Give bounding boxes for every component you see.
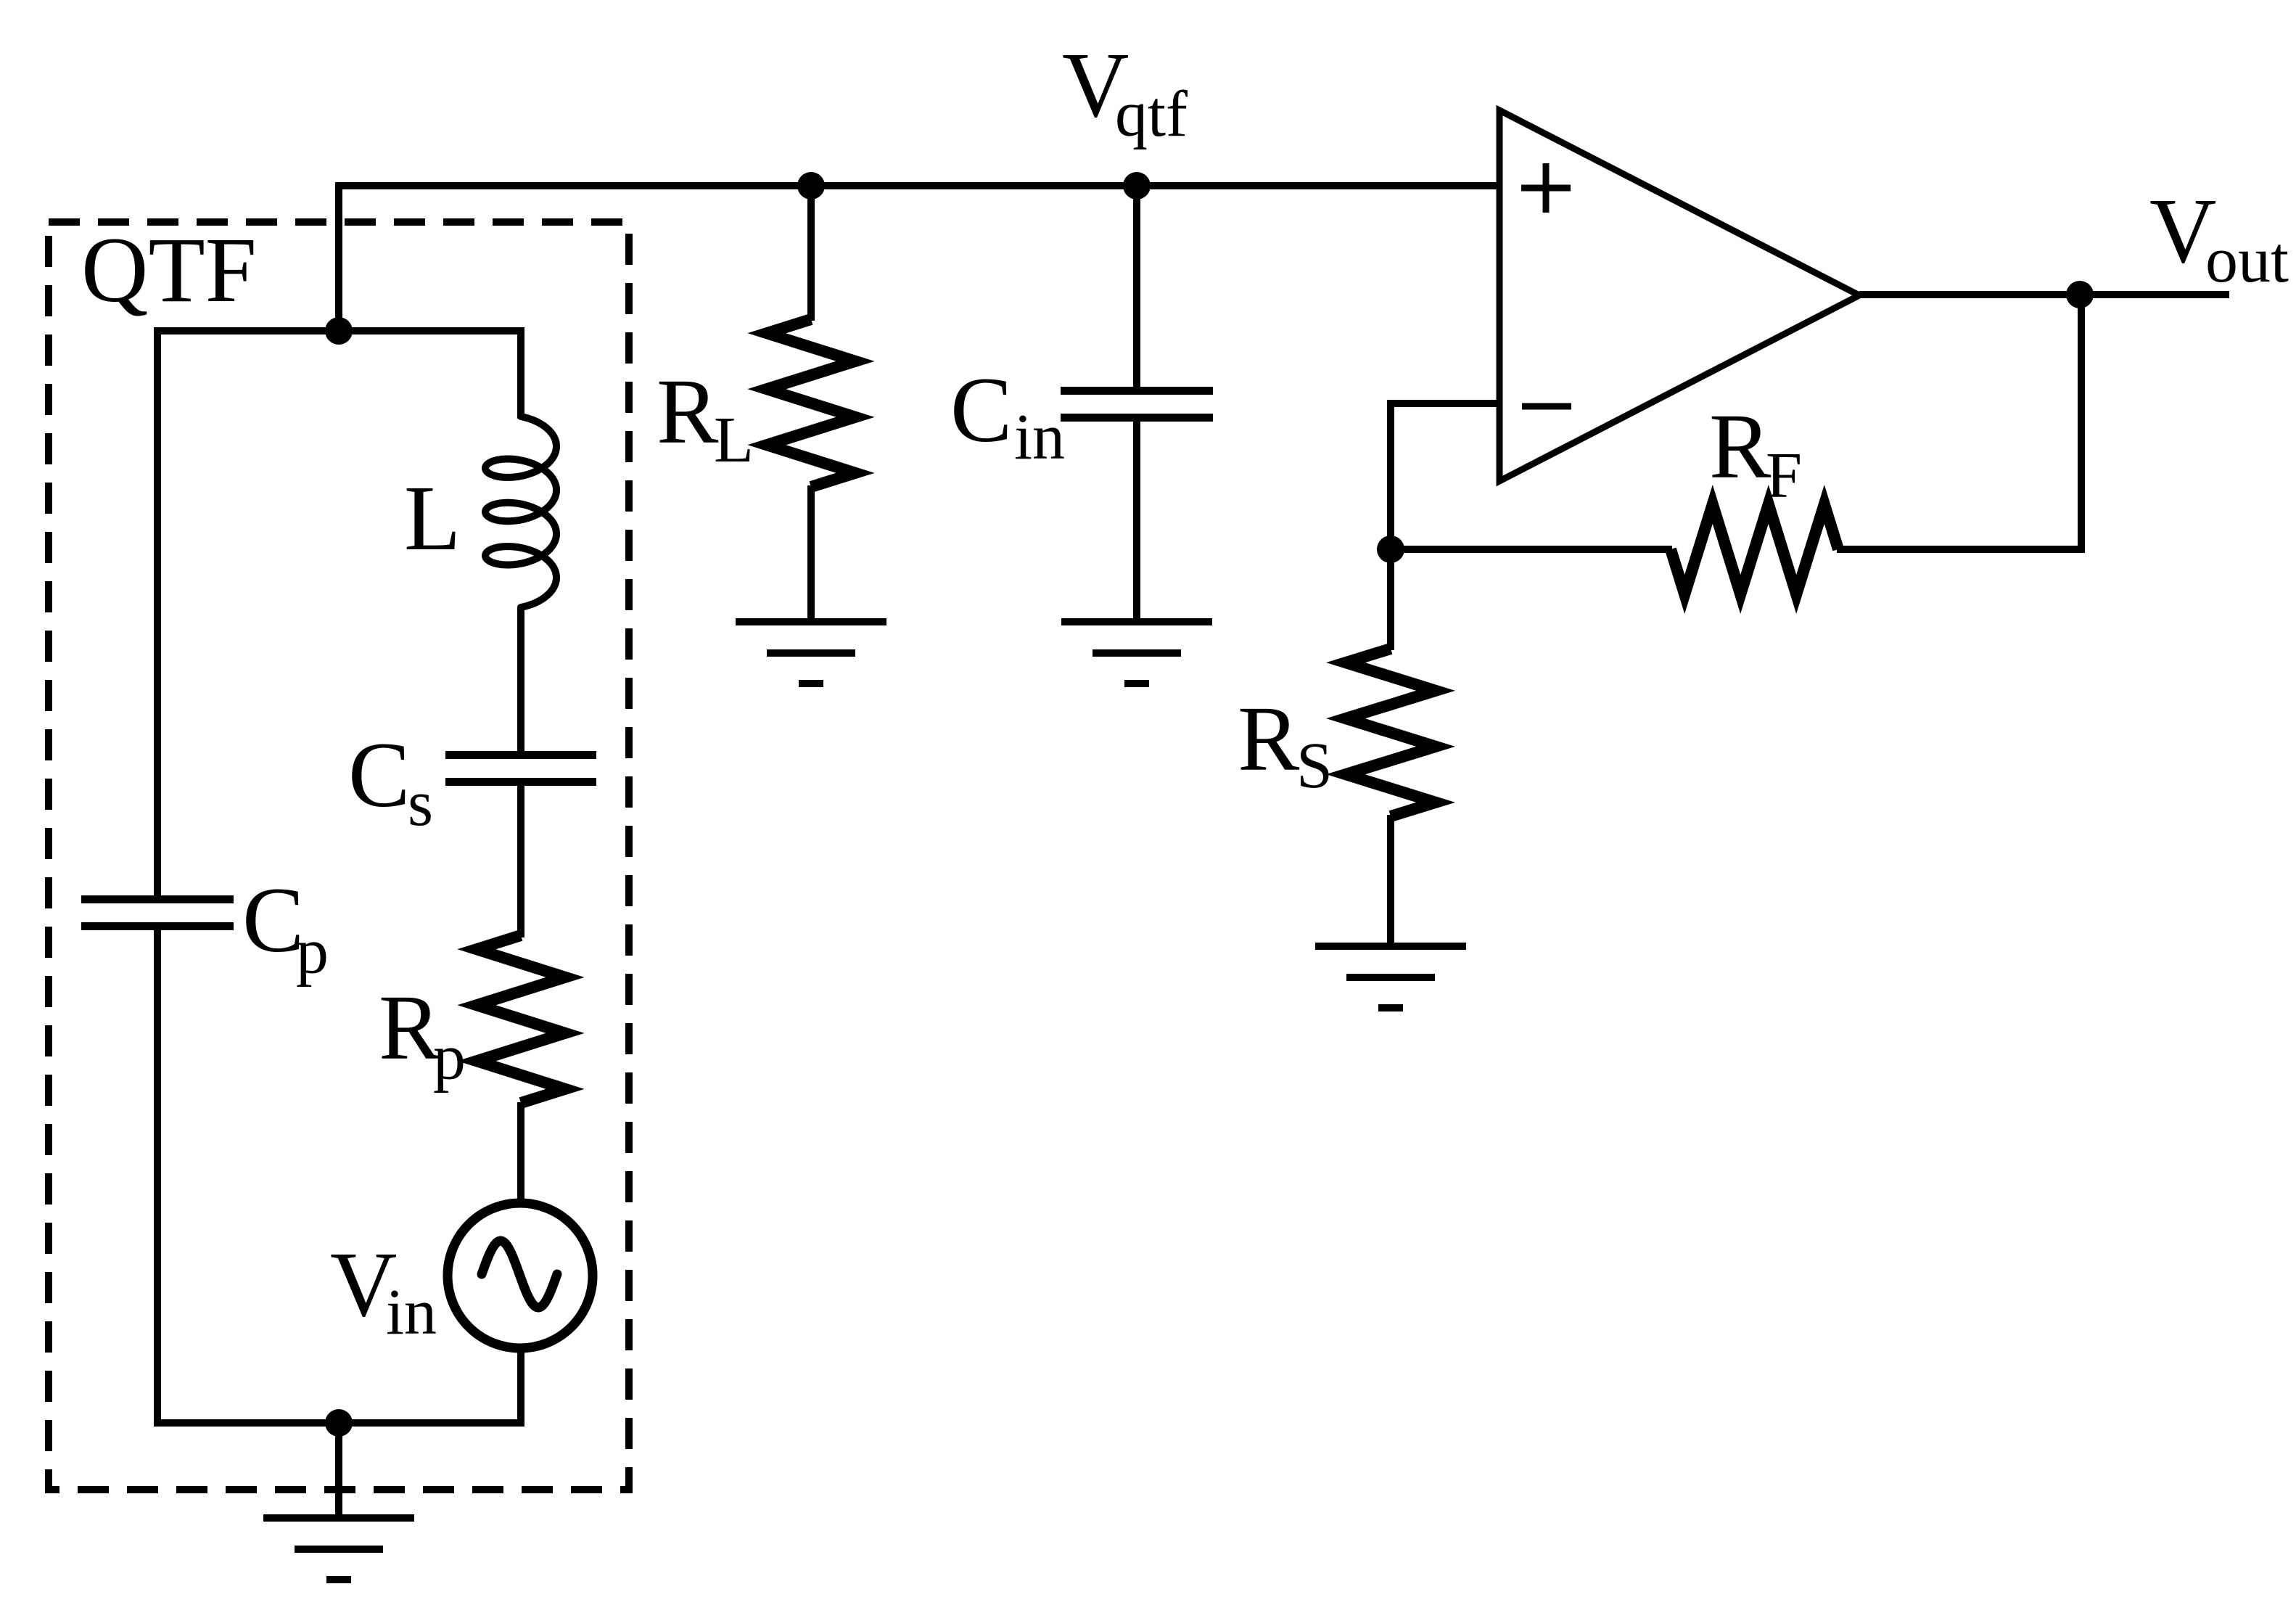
svg-text:out: out: [2205, 224, 2289, 296]
ground (RL): [736, 622, 886, 684]
node: Vout: [2066, 281, 2094, 308]
wire: Rp to Vin: [517, 1102, 524, 1205]
capacitor Cin: [1061, 391, 1213, 418]
svg-text:R: R: [1709, 395, 1772, 498]
wire: Cin lower: [1133, 418, 1140, 622]
svg-text:F: F: [1766, 440, 1802, 512]
svg-text:C: C: [242, 869, 304, 972]
wire: QTF bottom internal: [157, 927, 521, 1423]
wire: RS lower: [1387, 815, 1394, 946]
wire: RL lower: [807, 485, 815, 622]
node: RL junction: [797, 172, 825, 200]
svg-text:S: S: [1296, 730, 1333, 802]
ground (RS): [1315, 946, 1466, 1008]
svg-text:L: L: [404, 467, 461, 570]
svg-text:R: R: [379, 976, 441, 1079]
ground (QTF): [263, 1518, 414, 1580]
inductor L: [485, 416, 556, 607]
source Vin (AC): [448, 1203, 593, 1348]
resistor RS: [1346, 649, 1436, 816]
wire: Cin upper: [1133, 186, 1140, 391]
svg-text:s: s: [408, 768, 433, 840]
op-amp + symbol: [1521, 163, 1571, 213]
svg-text:C: C: [950, 358, 1012, 461]
wire: inverting input: [1391, 403, 1499, 650]
resistor RF: [1671, 504, 1838, 594]
capacitor Cp: [81, 900, 234, 927]
op-amp U1: [1499, 110, 1859, 481]
wire: output: [1859, 291, 2229, 298]
wire: Cs to Rp: [517, 782, 524, 937]
svg-text:L: L: [714, 404, 754, 476]
resistor RL: [767, 319, 855, 487]
wire: QTF top internal: [157, 331, 521, 899]
svg-text:p: p: [433, 1022, 466, 1093]
svg-text:QTF: QTF: [81, 218, 257, 321]
wire: RF left: [1391, 546, 1672, 553]
svg-text:C: C: [348, 723, 410, 826]
svg-text:qtf: qtf: [1115, 78, 1188, 150]
QTF enclosure (dashed box): [49, 222, 629, 1490]
ground (Cin): [1061, 622, 1212, 684]
svg-text:p: p: [296, 916, 329, 988]
wire: Vqtf rail from QTF riser to op-amp + input: [339, 186, 1499, 331]
svg-text:in: in: [1014, 401, 1065, 473]
resistor Rp: [477, 935, 565, 1103]
svg-text:R: R: [1238, 687, 1300, 790]
capacitor Cs: [445, 755, 596, 782]
node: Vqtf: [1123, 172, 1151, 200]
node: QTF internal junction: [325, 317, 353, 345]
wire: ground stem (QTF): [335, 1423, 342, 1518]
wire: RL upper: [807, 186, 815, 321]
node: feedback junction: [1377, 535, 1404, 563]
wire: RF right and riser to output: [1837, 295, 2081, 549]
wire: L to Cs: [517, 607, 524, 755]
node: QTF bottom junction: [325, 1409, 353, 1437]
svg-text:R: R: [657, 360, 719, 463]
svg-text:in: in: [386, 1276, 437, 1348]
op-amp - symbol: [1522, 403, 1571, 410]
